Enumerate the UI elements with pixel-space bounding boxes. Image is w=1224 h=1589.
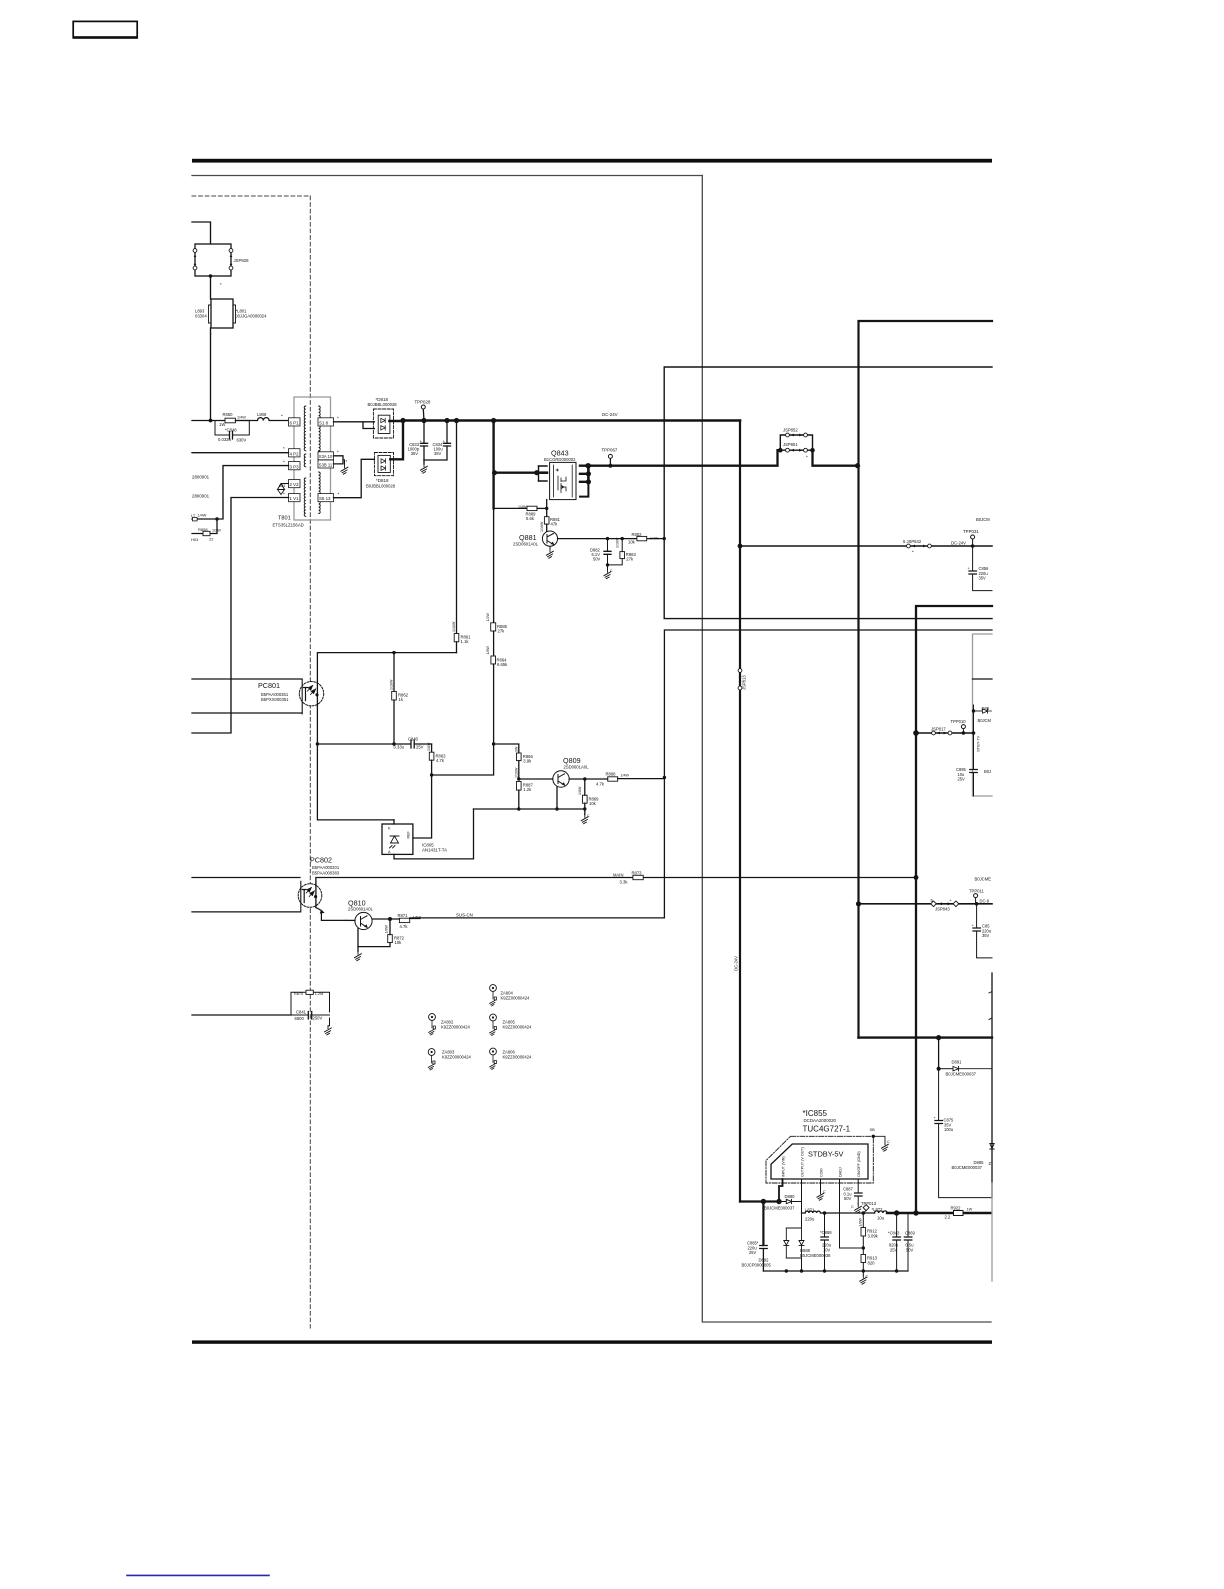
svg-text:27k: 27k	[626, 557, 634, 562]
wire STDBY-5V row	[825, 1211, 875, 1215]
svg-text:B1CGRD000002: B1CGRD000002	[544, 457, 576, 462]
wire anode node row	[474, 808, 585, 810]
connector block gray outline upper	[973, 634, 993, 796]
inductor L808	[248, 412, 289, 421]
svg-text:*: *	[283, 492, 285, 497]
transistor Q881	[513, 531, 558, 549]
svg-text:820: 820	[868, 1260, 876, 1265]
wire 24V-ON feedback bus upper	[664, 367, 992, 619]
wire connector edge pins	[989, 973, 992, 1198]
ground R913	[860, 1271, 869, 1284]
svg-text:3.09k: 3.09k	[868, 1233, 879, 1238]
test pad ZA804	[490, 985, 530, 1006]
svg-text:JSP813: JSP813	[742, 675, 747, 690]
wire IC855 input pin	[779, 1179, 783, 1202]
wire SUS bus lower	[410, 630, 992, 918]
svg-text:B0JCME000038: B0JCME000038	[800, 1253, 831, 1258]
svg-text:1/16W: 1/16W	[452, 621, 456, 632]
capacitor C888	[820, 1213, 832, 1271]
svg-text:4.7k: 4.7k	[400, 924, 409, 929]
transistor Q843 switching MOSFET	[539, 449, 592, 500]
svg-text:1/4W: 1/4W	[237, 416, 246, 420]
resistor R883	[606, 537, 637, 567]
test point TPP010	[951, 719, 967, 733]
svg-text:1W: 1W	[967, 1208, 973, 1212]
svg-text:K: K	[388, 827, 391, 831]
connector block gray outline lower	[991, 1183, 993, 1281]
svg-text:K9ZZ00000424: K9ZZ00000424	[442, 1055, 472, 1060]
pin V2 (2)	[289, 480, 301, 488]
jumper JSP852	[780, 428, 812, 451]
svg-text:50V: 50V	[906, 1247, 914, 1252]
wire P3 to left network	[192, 460, 289, 521]
primary-side isolation dashed boundary (vertical)	[309, 196, 311, 1328]
svg-text:1/16W: 1/16W	[540, 521, 544, 532]
svg-text:10V: 10V	[823, 1247, 831, 1252]
wire JSP828 to L801	[210, 276, 212, 299]
capacitor C840	[394, 737, 432, 750]
capacitor C841 line filter block	[192, 990, 330, 1025]
svg-text:C841: C841	[296, 1010, 307, 1015]
svg-text:C869: C869	[905, 1231, 916, 1236]
capacitor C887 on on/off pin	[843, 1179, 862, 1213]
svg-text:R858: R858	[198, 527, 208, 532]
svg-text:B0JCME000037: B0JCME000037	[764, 1206, 795, 1211]
svg-text:C: C	[866, 1275, 869, 1279]
resistor R850	[219, 412, 248, 427]
svg-text:D88: D88	[982, 706, 990, 711]
svg-text:*: *	[337, 416, 339, 421]
svg-text:AN1431T-TA: AN1431T-TA	[422, 848, 447, 853]
wire Q843 gate vertical	[545, 500, 548, 517]
transformer T801	[273, 397, 331, 528]
wire PC802 anode	[192, 877, 300, 879]
wire sense tap to R866	[494, 744, 519, 753]
svg-text:BJ1: BJ1	[279, 484, 286, 488]
ground Q810 emitter	[354, 952, 361, 961]
svg-text:1/2W: 1/2W	[486, 613, 490, 622]
svg-text:C: C	[587, 814, 590, 818]
resistor R889 gate drive	[494, 505, 547, 521]
svg-text:*: *	[283, 446, 285, 451]
test point TPP067	[602, 448, 618, 468]
test point TPP031	[951, 517, 990, 548]
node rail junction at C834	[444, 418, 449, 423]
svg-text:B0JBBL000028: B0JBBL000028	[368, 402, 398, 407]
svg-text:C840: C840	[408, 737, 419, 742]
svg-text:R871: R871	[398, 913, 409, 918]
inductor L872	[872, 1207, 888, 1221]
regulator IC855 labels	[803, 1109, 851, 1134]
resistor R913	[861, 1255, 878, 1273]
svg-text:1/4W: 1/4W	[518, 505, 527, 509]
svg-text:1/16W: 1/16W	[390, 679, 394, 690]
pin S3A (10)	[318, 452, 334, 460]
svg-text:3.3k: 3.3k	[620, 880, 629, 885]
ground C833 C834	[420, 460, 427, 473]
svg-text:220u: 220u	[805, 1217, 815, 1222]
spark gap BJ1 between V2 and V1	[278, 484, 289, 495]
wire L801 to mains rail	[210, 328, 212, 421]
svg-text:*: *	[806, 455, 808, 460]
svg-text:C: C	[610, 569, 613, 573]
svg-text:PC802: PC802	[310, 856, 332, 865]
svg-text:A: A	[388, 850, 391, 854]
resistor R866	[515, 746, 534, 779]
svg-text:DADJ: DADJ	[838, 1167, 842, 1177]
svg-text:2 V2: 2 V2	[290, 482, 300, 487]
svg-text:4 P2: 4 P2	[290, 451, 300, 456]
svg-text:B0JCP0000005: B0JCP0000005	[742, 1263, 772, 1268]
svg-text:INPUT (VIN): INPUT (VIN)	[781, 1156, 785, 1177]
blue footer link line	[127, 1574, 269, 1576]
svg-text:10k: 10k	[628, 540, 636, 545]
svg-text:2.2: 2.2	[945, 1215, 951, 1220]
svg-text:5.6k: 5.6k	[526, 516, 535, 521]
zener D882	[590, 539, 611, 565]
wire PC801 cathode	[192, 712, 302, 714]
wire AC input to JSP828	[192, 222, 211, 244]
wire STBY-7V thick bus	[916, 606, 992, 1213]
wire connector pin row	[973, 678, 993, 680]
svg-text:22: 22	[209, 537, 214, 542]
svg-text:SUS-CN: SUS-CN	[456, 913, 473, 918]
svg-text:1/8W: 1/8W	[427, 742, 431, 751]
capacitor C834	[424, 421, 451, 461]
page top border thick rule	[192, 159, 992, 163]
zener D885	[952, 1144, 995, 1171]
wire raw secondary bottom bus	[859, 1035, 993, 1040]
pin P1 (6)	[289, 418, 301, 426]
svg-text:25V: 25V	[890, 1247, 898, 1252]
node IC855 SB tab	[870, 1127, 891, 1151]
wire PC802 cathode	[192, 911, 300, 913]
node rail junction at R861	[454, 418, 459, 423]
pin P3 (3)	[289, 462, 301, 470]
svg-text:DC-9: DC-9	[980, 899, 990, 904]
node rail junction at C833	[421, 418, 426, 423]
svg-text:25V: 25V	[749, 1250, 757, 1255]
capacitor C885	[747, 1202, 767, 1272]
capacitor C857	[972, 904, 993, 958]
svg-text:DC-24V: DC-24V	[734, 956, 739, 971]
wire secondary 24V bus bracket	[859, 321, 993, 1038]
svg-text:L808: L808	[257, 412, 267, 417]
svg-text:B0JCM: B0JCM	[978, 718, 992, 723]
resistor R869	[578, 779, 599, 811]
wire DC-9V output row	[856, 901, 992, 906]
svg-text:1.2k: 1.2k	[523, 787, 532, 792]
resistor R863	[427, 742, 446, 777]
schematic frame thin rule right/bottom	[702, 176, 991, 1323]
svg-text:*: *	[281, 414, 283, 419]
svg-text:STDBY-5V: STDBY-5V	[808, 1150, 844, 1159]
inductor L871	[802, 1208, 827, 1222]
schematic frame thin rule top	[192, 175, 702, 177]
svg-text:K9ZZ00000424: K9ZZ00000424	[503, 1025, 533, 1030]
svg-text:*IC855: *IC855	[803, 1109, 828, 1118]
wire R861 sense drop	[456, 421, 458, 634]
svg-text:*: *	[220, 282, 222, 287]
jumper JSP817	[913, 727, 980, 753]
line filter L801	[195, 299, 267, 337]
svg-text:1.2M: 1.2M	[315, 992, 323, 996]
jumper JSP843	[931, 898, 959, 912]
zener D892	[742, 1228, 789, 1268]
svg-text:STBY-7V: STBY-7V	[976, 735, 981, 752]
thermistor stub at left edge	[191, 513, 207, 521]
capacitor C869	[904, 1213, 915, 1271]
svg-text:35V: 35V	[982, 933, 990, 938]
resistor R881	[540, 517, 561, 532]
capacitor C895	[956, 733, 991, 796]
wire IC805 ref	[413, 775, 432, 838]
svg-text:B5PAA000201: B5PAA000201	[312, 865, 340, 870]
svg-text:250V: 250V	[313, 1016, 323, 1021]
wire IC805 cathode	[393, 820, 395, 824]
resistor R864	[432, 631, 509, 775]
svg-text:27k: 27k	[498, 629, 506, 634]
title block box (top left)	[73, 21, 138, 38]
svg-text:DC-24V: DC-24V	[951, 541, 966, 546]
svg-text:50V: 50V	[844, 1196, 852, 1201]
wire Q843 source link	[492, 470, 539, 475]
svg-text:H03: H03	[191, 537, 199, 542]
svg-text:0.033u: 0.033u	[218, 437, 231, 442]
svg-text:DC-24V: DC-24V	[602, 412, 618, 417]
svg-text:4.7k: 4.7k	[596, 782, 605, 787]
svg-text:TUC4G727-1: TUC4G727-1	[803, 1125, 851, 1134]
svg-text:1/8W: 1/8W	[486, 646, 490, 655]
transistor Q810	[346, 899, 392, 952]
svg-text:1.1k: 1.1k	[461, 639, 470, 644]
ground rail stub	[801, 1258, 803, 1271]
svg-text:B5PXX000351: B5PXX000351	[261, 697, 289, 702]
svg-text:COM: COM	[819, 1168, 823, 1177]
pin S5 (13)	[318, 494, 334, 502]
svg-text:0.33u: 0.33u	[394, 745, 405, 750]
wire PC802 emitter to Q810	[316, 908, 346, 921]
svg-text:3 P3: 3 P3	[290, 464, 300, 469]
capacitor C843	[888, 1213, 900, 1271]
optocoupler PC801	[258, 679, 324, 714]
jumper JSP842	[903, 539, 931, 555]
resistor R922	[945, 1206, 973, 1220]
svg-text:T801: T801	[278, 516, 291, 522]
svg-text:PC801: PC801	[258, 681, 280, 690]
svg-text:K9ZZ00000424: K9ZZ00000424	[503, 1055, 533, 1060]
svg-text:1/8W: 1/8W	[578, 786, 582, 795]
wire feedback row	[317, 743, 410, 745]
svg-text:K9ZZ00000424: K9ZZ00000424	[501, 996, 531, 1001]
svg-text:B0JCME: B0JCME	[975, 877, 992, 882]
test point TPP028	[415, 400, 431, 421]
svg-text:JSP851: JSP851	[783, 442, 798, 447]
wire PC802 collector MAIN row	[316, 875, 919, 884]
svg-text:1/4W: 1/4W	[650, 537, 659, 541]
wire IC805 anode return	[394, 809, 474, 859]
optocoupler PC802	[298, 856, 340, 912]
node mains rail junction	[209, 419, 213, 423]
ground R869	[581, 809, 590, 824]
test point TPP011	[969, 877, 991, 906]
wire D818 upper output to DC rail	[389, 420, 403, 422]
svg-text:S5 13: S5 13	[319, 496, 331, 501]
wire STDBY-5V thick output	[887, 1210, 991, 1215]
resistor R885	[486, 508, 508, 633]
wire DC-24V vertical feed bus	[739, 421, 741, 1202]
wire D818 lower output riser	[390, 421, 403, 460]
net label 2800001 (lower)	[192, 494, 210, 499]
svg-text:1/4W: 1/4W	[198, 514, 207, 518]
svg-text:*: *	[912, 550, 914, 555]
svg-text:1/2W: 1/2W	[212, 529, 221, 533]
svg-text:J0JJGA0000024: J0JJGA0000024	[236, 314, 268, 319]
svg-text:S1 8: S1 8	[319, 421, 329, 426]
svg-text:2SD0601A0L: 2SD0601A0L	[348, 907, 374, 912]
svg-text:C: C	[887, 1140, 890, 1144]
svg-text:1/16W: 1/16W	[515, 767, 519, 778]
svg-text:1/8W: 1/8W	[385, 925, 389, 934]
capacitor C833	[408, 421, 428, 461]
svg-text:B0J: B0J	[984, 769, 991, 774]
wire Q843 thick feed	[492, 421, 494, 509]
wire PC801 collector to R861 R862	[317, 651, 456, 682]
svg-text:TPP013: TPP013	[861, 1201, 877, 1206]
svg-text:OUTPUT (V OUT): OUTPUT (V OUT)	[800, 1147, 804, 1177]
jumper JSP813	[738, 669, 746, 690]
resistor R871 SUS-CN	[390, 913, 473, 930]
svg-text:2SD0601A0L: 2SD0601A0L	[564, 765, 590, 770]
svg-text:D890: D890	[785, 1194, 796, 1199]
jumper JSP828	[193, 244, 249, 287]
capacitor C875	[934, 1069, 993, 1198]
svg-text:3W: 3W	[515, 746, 519, 752]
capacitor C848	[215, 421, 249, 443]
diode D818 (lower)	[366, 453, 396, 489]
resistor R861	[452, 621, 471, 653]
ground D882 R883	[604, 565, 613, 579]
pin S3B (11)	[318, 460, 334, 468]
test pad ZA803	[428, 1049, 471, 1070]
node rail junction at D818	[400, 418, 405, 423]
jumper JSP851	[778, 442, 815, 460]
net label 2800001 (upper)	[192, 475, 210, 480]
diode D891	[937, 1038, 992, 1077]
transistor Q809	[519, 756, 589, 811]
svg-text:630V: 630V	[237, 438, 247, 443]
resistor R868	[585, 772, 665, 787]
wire V1 to primary ground network	[231, 492, 289, 680]
wire PC801 bottom return	[192, 679, 231, 733]
svg-text:SB: SB	[870, 1127, 876, 1132]
svg-text:*: *	[283, 460, 285, 465]
svg-text:1/16W: 1/16W	[616, 537, 620, 548]
wire PC801 anode	[192, 678, 302, 680]
wire S5 to rectifier D818 lower	[334, 459, 375, 497]
svg-text:B0JCM: B0JCM	[976, 517, 990, 522]
pin S1 (8)	[318, 418, 334, 426]
wire PC801 emitter drop	[316, 706, 394, 820]
svg-text:2800001: 2800001	[192, 494, 210, 499]
wire switched DC-24V to jumpers	[585, 450, 777, 468]
svg-text:10k: 10k	[395, 940, 403, 945]
svg-text:3.9k: 3.9k	[523, 759, 532, 764]
zener D888	[786, 1228, 831, 1258]
svg-text:DCDAA2000020: DCDAA2000020	[804, 1118, 837, 1123]
svg-text:2800001: 2800001	[192, 475, 210, 480]
svg-text:2SD0601A0L: 2SD0601A0L	[513, 542, 539, 547]
wire P2 winding feed	[192, 446, 289, 453]
svg-text:TPP067: TPP067	[602, 448, 618, 453]
svg-text:R870: R870	[294, 992, 303, 996]
primary-side isolation dashed boundary (top)	[192, 195, 310, 197]
resistor R873	[613, 871, 643, 885]
wire IC855 output pin	[801, 1179, 803, 1228]
test pad ZA802	[429, 1014, 471, 1035]
svg-text:6.65k: 6.65k	[497, 662, 508, 667]
resistor R912	[859, 1213, 879, 1255]
svg-text:TPP011: TPP011	[969, 889, 984, 894]
test point TPP013	[861, 1201, 877, 1213]
svg-text:*: *	[338, 492, 340, 497]
svg-text:+: +	[934, 1115, 937, 1120]
svg-text:R850: R850	[223, 412, 234, 417]
svg-text:*: *	[337, 450, 339, 455]
wire secondary ground rail	[763, 1269, 908, 1272]
svg-text:*D818: *D818	[376, 478, 389, 483]
svg-text:C: C	[823, 1190, 826, 1194]
svg-text:*C848: *C848	[225, 428, 237, 433]
svg-text:JSP852: JSP852	[783, 428, 798, 433]
diode D890	[764, 1194, 802, 1211]
svg-text:25V: 25V	[416, 745, 424, 750]
svg-text:ON/OFF (GND): ON/OFF (GND)	[857, 1151, 861, 1177]
svg-text:03304: 03304	[195, 314, 207, 319]
svg-text:*: *	[950, 899, 952, 904]
resistor R887	[515, 767, 534, 811]
wire raw feed input row	[740, 1199, 782, 1204]
svg-text:B0JCME000037: B0JCME000037	[952, 1165, 983, 1170]
svg-text:35V: 35V	[411, 451, 419, 456]
wire S1 to rectifier D818	[334, 416, 375, 429]
svg-text:25V: 25V	[958, 777, 966, 782]
svg-text:TPP028: TPP028	[415, 400, 431, 405]
svg-text:+: +	[972, 923, 975, 928]
shunt regulator IC805	[382, 824, 447, 854]
wire DC-24V output row	[738, 544, 992, 549]
wire Q881 collector to R882	[558, 537, 665, 540]
capacitor C856	[968, 546, 993, 591]
wire IC855 dadj pin	[840, 1179, 864, 1248]
svg-text:S3A 10: S3A 10	[319, 454, 333, 459]
pin P2 (4)	[289, 449, 301, 457]
svg-text:D891: D891	[952, 1060, 963, 1065]
diode D818 (upper)	[368, 397, 398, 438]
svg-text:4.7k: 4.7k	[436, 758, 445, 763]
svg-text:REF: REF	[407, 831, 411, 839]
svg-text:6 P1: 6 P1	[290, 421, 300, 426]
svg-text:10k: 10k	[589, 801, 597, 806]
wire mains rail left	[192, 420, 225, 422]
svg-text:B0JBBL000028: B0JBBL000028	[366, 484, 396, 489]
svg-text:1 V1: 1 V1	[290, 496, 300, 501]
pin V1 (1)	[289, 494, 301, 502]
svg-text:1/4W: 1/4W	[621, 774, 630, 778]
svg-text:*: *	[346, 459, 348, 464]
svg-text:+: +	[968, 566, 971, 571]
ground C841	[324, 1026, 331, 1035]
